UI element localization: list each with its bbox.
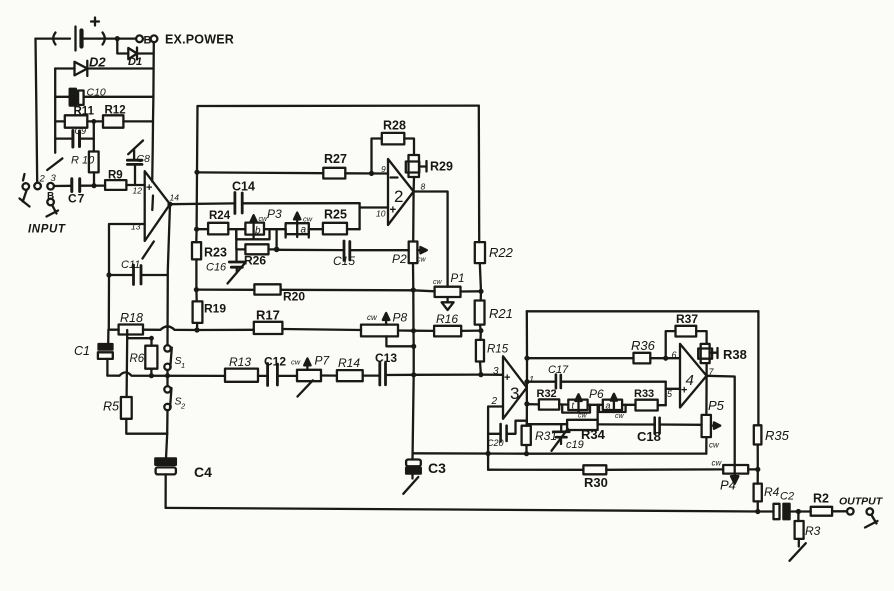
wire R27 row — [197, 171, 323, 174]
svg-text:R4: R4 — [764, 485, 780, 499]
svg-text:C15: C15 — [333, 254, 355, 268]
junction R3 top node — [796, 509, 801, 514]
svg-text:C14: C14 — [232, 180, 255, 194]
svg-text:R36: R36 — [631, 338, 656, 353]
svg-text:C13: C13 — [375, 351, 397, 365]
junction C11 node — [106, 272, 111, 277]
svg-text:R29: R29 — [430, 160, 453, 174]
resistor R14 — [337, 370, 379, 381]
junction S1 bottom node — [165, 373, 170, 378]
battery BT1 — [36, 18, 137, 51]
svg-text:P3: P3 — [267, 207, 282, 221]
wire op3 loop top rail — [527, 310, 759, 312]
junction R31 row node — [524, 451, 529, 456]
potentiometer P7 — [297, 359, 337, 397]
resistor R25 — [323, 223, 360, 235]
wire U3 pin2 to C20 branch — [488, 407, 503, 470]
wire P1 right to R22 rail — [461, 290, 483, 293]
svg-text:14: 14 — [170, 193, 180, 203]
wire R26 node up to pots — [275, 229, 277, 249]
svg-text:P7: P7 — [315, 354, 331, 368]
wire R6 branch vertical — [127, 330, 151, 338]
capacitor C1 — [98, 330, 113, 376]
potentiometer P1 — [435, 287, 461, 310]
switch S1 — [164, 345, 172, 375]
svg-text:C18: C18 — [637, 429, 661, 444]
junction C17 row node — [524, 379, 529, 384]
junction R28 pin9 node — [369, 171, 374, 176]
wire R34 C18 row — [527, 421, 567, 425]
junction U1 output node — [167, 202, 172, 207]
svg-text:cw: cw — [578, 413, 588, 420]
trimmer capacitor C19 — [552, 424, 570, 451]
svg-text:C11: C11 — [121, 259, 140, 271]
svg-text:R27: R27 — [324, 152, 347, 166]
wire U4 out to P4 wiper — [707, 376, 735, 476]
terminal input 2 — [34, 183, 41, 190]
junction R15 pin3 node — [478, 372, 483, 377]
svg-text:C4: C4 — [194, 464, 212, 480]
diode D2 — [55, 61, 153, 76]
capacitor C7 — [72, 179, 105, 192]
svg-text:9: 9 — [381, 164, 386, 174]
junction R26 right node — [274, 247, 280, 253]
wire U4 pin5 — [666, 388, 680, 390]
svg-text:3: 3 — [51, 173, 57, 184]
svg-text:C12: C12 — [264, 355, 286, 369]
wire C14 R25 junction vertical — [358, 203, 360, 229]
wire V+ bus vertical — [152, 42, 154, 182]
svg-text:R26: R26 — [244, 254, 266, 268]
svg-text:3: 3 — [510, 384, 519, 403]
wire R5 branch — [125, 338, 128, 397]
svg-text:R17: R17 — [256, 308, 280, 323]
resistor R34 — [567, 405, 598, 430]
resistor R17 — [254, 322, 361, 334]
svg-text:C3: C3 — [428, 460, 446, 476]
op-amp U3 — [503, 356, 527, 419]
junction R20 row left — [194, 287, 199, 292]
svg-text:a: a — [606, 401, 611, 411]
svg-text:R3: R3 — [805, 524, 821, 538]
terminal output A — [847, 508, 854, 515]
svg-text:3: 3 — [493, 366, 499, 377]
resistor R21 — [475, 291, 485, 330]
wire U3 output rail — [526, 311, 529, 425]
svg-text:cw: cw — [709, 441, 720, 450]
svg-text:+: + — [146, 182, 152, 194]
resistor R32 — [527, 399, 568, 409]
svg-text:cw: cw — [433, 279, 443, 286]
svg-text:R 10: R 10 — [71, 155, 95, 167]
op-amp U1 — [145, 171, 170, 241]
svg-text:R38: R38 — [723, 347, 747, 362]
svg-text:8: 8 — [421, 182, 426, 192]
svg-text:P4: P4 — [720, 478, 736, 493]
svg-text:cw: cw — [417, 257, 427, 264]
potentiometer P2 — [409, 242, 427, 264]
resistor R5 — [121, 397, 167, 434]
svg-text:C8: C8 — [137, 153, 151, 165]
svg-text:R22: R22 — [489, 245, 514, 260]
svg-text:EX.POWER: EX.POWER — [165, 33, 234, 47]
svg-text:R11: R11 — [74, 106, 95, 118]
svg-text:2: 2 — [394, 187, 403, 206]
capacitor C13 — [380, 363, 414, 385]
capacitor C10 — [55, 89, 153, 106]
resistor R36 — [634, 353, 681, 364]
terminal input B — [47, 199, 59, 217]
wire R11R12 node down through C9 node — [93, 121, 95, 151]
terminal EX.POWER pin B — [151, 35, 158, 42]
junction R21 R16 node — [478, 328, 483, 333]
svg-text:R19: R19 — [204, 302, 226, 316]
svg-text:P1: P1 — [451, 273, 465, 285]
svg-text:R28: R28 — [383, 119, 406, 133]
svg-text:a: a — [301, 225, 307, 236]
resistor R3 — [790, 512, 806, 561]
wire U2 out to P1 wiper — [414, 192, 448, 287]
junction R19 bottom node — [194, 327, 199, 332]
potentiometer P3 section b — [236, 215, 285, 239]
resistor R11 — [55, 115, 103, 127]
svg-text:R18: R18 — [120, 311, 143, 325]
resistor R24 — [197, 223, 246, 235]
junction R11 R12 node — [91, 119, 96, 124]
junction C3 row node — [486, 451, 491, 456]
wire U2 out down through P2 — [413, 192, 414, 454]
svg-text:R15: R15 — [487, 344, 509, 356]
capacitor C11 — [109, 265, 167, 285]
svg-text:b: b — [255, 226, 261, 237]
wire op4 loop right rail — [757, 311, 759, 425]
svg-text:10: 10 — [376, 209, 386, 219]
trimmer capacitor C8 — [127, 141, 143, 186]
capacitor C17 — [527, 375, 666, 389]
terminal output B — [865, 508, 878, 527]
switch lever input 3 to bus — [47, 158, 62, 170]
svg-text:P6: P6 — [589, 387, 604, 401]
svg-text:R30: R30 — [584, 475, 608, 490]
junction R6 bottom — [149, 373, 154, 378]
svg-text:C20: C20 — [487, 438, 504, 448]
pin minus U2 — [391, 176, 398, 178]
resistor R18 — [109, 325, 197, 335]
resistor R19 — [193, 290, 203, 330]
svg-text:OUTPUT: OUTPUT — [839, 496, 884, 508]
svg-text:R20: R20 — [283, 290, 305, 304]
svg-text:R12: R12 — [105, 105, 126, 117]
trimmer capacitor C16 — [228, 249, 246, 283]
terminal input 3 — [47, 183, 54, 190]
junction frame left R27 row — [194, 170, 199, 175]
wire input 3 to C7 — [54, 185, 71, 187]
svg-text:C2: C2 — [780, 491, 794, 503]
wire R36 row — [527, 357, 634, 359]
resistor R10 — [89, 152, 99, 186]
svg-text:cw: cw — [712, 459, 723, 468]
resistor R30 — [583, 465, 723, 474]
svg-text:1: 1 — [181, 361, 185, 370]
wire C17 to pin5 and R33 — [665, 382, 667, 406]
svg-text:+: + — [390, 205, 397, 217]
svg-text:D1: D1 — [128, 56, 142, 68]
resistor R16 — [414, 326, 481, 337]
junction P8 wiper node — [411, 344, 416, 349]
svg-text:R24: R24 — [209, 210, 231, 222]
svg-text:cw: cw — [367, 313, 378, 322]
wire U1 output down to S1 — [168, 204, 171, 345]
wire pin13 bus down to R18 — [108, 275, 110, 330]
svg-text:R5: R5 — [103, 400, 119, 414]
capacitor C18 — [598, 418, 702, 434]
svg-text:c19: c19 — [566, 439, 584, 451]
resistor R35 — [754, 425, 762, 469]
resistor R28 — [372, 133, 415, 174]
resistor R9 — [105, 180, 145, 190]
wire R30 row — [488, 469, 583, 471]
capacitor C9 — [55, 131, 94, 148]
resistor R12 — [103, 115, 153, 127]
wire S1 to S2 — [166, 376, 168, 386]
wire mid row C3 to P5 — [413, 452, 707, 455]
junction C13 pin3 rail node — [411, 372, 416, 377]
resistor R22 — [475, 242, 485, 291]
potentiometer P4 — [723, 465, 758, 484]
svg-text:D2: D2 — [89, 55, 106, 70]
terminal input 1 — [20, 174, 30, 207]
svg-text:R32: R32 — [537, 388, 557, 400]
wire signal row C1 to R13 with hop — [107, 372, 225, 376]
resistor R4 — [754, 469, 762, 511]
potentiometer P3 section a — [286, 213, 323, 238]
trimmer resistor R38 — [698, 344, 717, 376]
potentiometer P6 section b — [562, 394, 603, 412]
wire battery minus down to input 2 — [36, 39, 38, 183]
terminal EX.POWER pin A — [136, 35, 143, 42]
svg-text:C10: C10 — [87, 87, 106, 99]
svg-text:R6: R6 — [130, 353, 145, 365]
svg-text:R34: R34 — [581, 427, 606, 442]
svg-text:R13: R13 — [229, 355, 251, 369]
resistor R31 — [522, 426, 531, 454]
junction P8 R16 node — [411, 328, 416, 333]
capacitor C20 — [488, 421, 527, 442]
trimmer resistor R29 — [406, 155, 427, 192]
svg-text:12: 12 — [133, 186, 143, 196]
svg-text:+: + — [504, 372, 510, 384]
svg-text:P5: P5 — [708, 398, 725, 413]
svg-text:cw: cw — [615, 413, 625, 420]
svg-text:5: 5 — [667, 389, 673, 399]
wire frame left rail — [196, 106, 197, 242]
junction battery plus node — [115, 36, 120, 41]
resistor R26 — [236, 229, 276, 254]
potentiometer P5 — [702, 376, 721, 454]
svg-text:R25: R25 — [324, 208, 347, 222]
svg-text:+: + — [681, 385, 687, 397]
capacitor C2 — [758, 504, 811, 519]
junction R10 input node — [91, 183, 96, 188]
svg-text:R9: R9 — [108, 170, 123, 182]
svg-text:P8: P8 — [393, 311, 408, 325]
switch S2 — [164, 386, 171, 434]
svg-text:R33: R33 — [634, 388, 654, 400]
svg-text:P2: P2 — [392, 252, 407, 266]
wire ground rail bottom — [166, 508, 758, 512]
resistor R37 — [666, 326, 707, 358]
resistor R27 — [323, 168, 388, 179]
resistor R20 — [196, 284, 434, 294]
svg-text:C17: C17 — [548, 364, 569, 376]
svg-text:R37: R37 — [676, 312, 698, 326]
junction P1 R22 node — [478, 289, 483, 294]
wire U1 pin13 to left — [109, 224, 145, 275]
svg-text:R16: R16 — [436, 312, 458, 326]
wire U2 pin10 — [360, 206, 388, 208]
wire frame right rail — [478, 106, 481, 243]
capacitor C4 — [155, 458, 176, 508]
svg-text:C1: C1 — [74, 344, 90, 358]
junction R32 row node — [524, 401, 529, 406]
svg-text:INPUT: INPUT — [28, 224, 66, 236]
capacitor C14 — [170, 193, 360, 214]
resistor R15 — [476, 331, 484, 375]
op-amp U2 — [388, 159, 414, 225]
junction R20 P2 node — [411, 287, 416, 292]
wire frame top rail — [198, 104, 479, 107]
svg-text:2: 2 — [39, 174, 46, 185]
resistor R2 — [811, 507, 847, 516]
wire S2 to C4 — [166, 434, 167, 459]
offset mark under U1 — [143, 242, 154, 259]
junction R4 bottom node — [755, 509, 760, 514]
svg-text:R35: R35 — [765, 428, 790, 443]
svg-text:R23: R23 — [204, 246, 227, 260]
junction R36 row node — [524, 356, 529, 361]
capacitor C3 — [403, 453, 421, 494]
resistor R13 — [225, 369, 267, 382]
svg-text:6: 6 — [672, 350, 677, 360]
label 1 opamp — [151, 196, 154, 211]
svg-text:R2: R2 — [813, 492, 829, 506]
svg-text:cw: cw — [303, 215, 313, 224]
resistor R33 — [636, 400, 666, 411]
junction R35 P4 node — [755, 467, 760, 472]
resistor R23 — [192, 242, 201, 289]
op-amp U4 — [680, 344, 707, 408]
svg-text:R14: R14 — [338, 356, 360, 370]
resistor R6 — [145, 338, 157, 376]
svg-text:2: 2 — [180, 402, 186, 411]
capacitor C15 — [277, 241, 409, 261]
svg-text:R21: R21 — [489, 306, 513, 321]
wire R17 row — [197, 329, 254, 332]
capacitor C12 — [268, 364, 297, 386]
svg-text:C7: C7 — [68, 192, 85, 206]
potentiometer P6 section a — [599, 394, 636, 412]
potentiometer P8 — [361, 313, 414, 346]
wire battery plus to D1 — [117, 39, 128, 54]
svg-text:cw: cw — [291, 358, 301, 367]
diode D1 — [128, 48, 153, 60]
svg-text:1: 1 — [529, 375, 534, 385]
junction R36 R37 pin6 node — [663, 356, 668, 361]
junction R24 row left — [194, 227, 199, 232]
wire D2 left bus — [54, 69, 56, 153]
svg-text:C16: C16 — [206, 262, 227, 274]
wire pin3 row to U3 — [414, 373, 503, 375]
svg-text:C9: C9 — [75, 126, 87, 136]
